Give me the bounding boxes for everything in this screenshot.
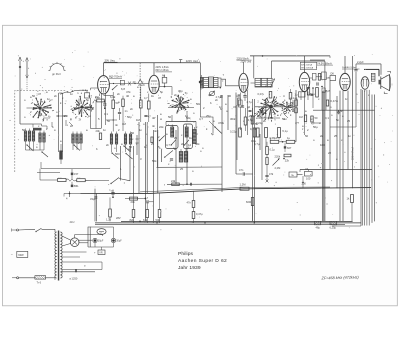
svg-text:1µ: 1µ <box>287 136 290 140</box>
svg-text:1n: 1n <box>345 97 349 101</box>
svg-text:Ab: Ab <box>162 73 166 77</box>
svg-text:5p: 5p <box>160 90 164 94</box>
svg-text:200: 200 <box>302 181 307 185</box>
svg-text:50: 50 <box>107 119 111 123</box>
svg-text:50: 50 <box>32 94 36 98</box>
svg-text:2n: 2n <box>117 92 121 96</box>
svg-text:5p: 5p <box>211 132 215 136</box>
svg-text:47k: 47k <box>126 90 131 94</box>
svg-text:~: ~ <box>11 252 13 256</box>
svg-text:0,27µ: 0,27µ <box>258 92 265 96</box>
svg-text:20k: 20k <box>131 200 136 204</box>
svg-text:2n: 2n <box>215 98 219 102</box>
svg-text:2,2µF: 2,2µF <box>357 60 364 64</box>
svg-text:4,7: 4,7 <box>295 121 299 125</box>
svg-text:40: 40 <box>152 116 156 120</box>
svg-text:48µ: 48µ <box>316 226 321 230</box>
svg-text:50: 50 <box>129 145 133 149</box>
svg-text:2n: 2n <box>292 109 296 113</box>
svg-text:6,25µ: 6,25µ <box>330 226 337 230</box>
svg-text:30p: 30p <box>178 89 183 93</box>
svg-text:47: 47 <box>38 92 42 96</box>
svg-text:4,7: 4,7 <box>199 117 203 121</box>
svg-text:Philips: Philips <box>178 251 194 257</box>
svg-text:0,68µF: 0,68µF <box>270 136 279 140</box>
svg-text:157: 157 <box>74 172 79 176</box>
svg-text:2n: 2n <box>174 93 178 97</box>
svg-text:6,8k: 6,8k <box>110 95 116 99</box>
svg-text:0,47µ: 0,47µ <box>196 212 203 216</box>
svg-text:VR: VR <box>99 252 103 255</box>
svg-text:30µF: 30µF <box>98 240 104 243</box>
svg-text:4n: 4n <box>154 129 158 133</box>
svg-text:47n: 47n <box>187 201 192 205</box>
svg-text:25: 25 <box>249 114 253 118</box>
svg-text:2n: 2n <box>263 119 267 123</box>
svg-text:24k: 24k <box>171 179 176 183</box>
svg-text:2n: 2n <box>181 142 185 146</box>
svg-text:1M: 1M <box>299 115 303 119</box>
svg-text:1n: 1n <box>103 128 107 132</box>
svg-text:22k: 22k <box>159 125 164 129</box>
svg-text:220V Ued: 220V Ued <box>186 59 198 63</box>
svg-text:500: 500 <box>115 152 120 156</box>
svg-text:50p: 50p <box>127 115 132 119</box>
svg-text:33µF: 33µF <box>90 197 96 201</box>
svg-text:95V 2,85mA: 95V 2,85mA <box>301 67 314 70</box>
svg-text:1n: 1n <box>310 117 314 121</box>
svg-text:50: 50 <box>168 115 172 119</box>
svg-text:25: 25 <box>347 119 351 123</box>
svg-text:gn Perl: gn Perl <box>52 72 61 76</box>
svg-text:100: 100 <box>320 143 325 147</box>
svg-text:0,1µ: 0,1µ <box>270 148 276 152</box>
svg-text:4n: 4n <box>152 124 156 128</box>
svg-text:g2: g2 <box>247 105 251 109</box>
svg-text:4n: 4n <box>233 117 237 121</box>
svg-text:47: 47 <box>208 93 212 97</box>
svg-text:28V: 28V <box>116 216 121 220</box>
svg-text:2,2M: 2,2M <box>275 166 281 170</box>
svg-text:25: 25 <box>334 134 338 138</box>
svg-text:47: 47 <box>158 96 162 100</box>
svg-text:50: 50 <box>22 128 26 132</box>
svg-text:1n: 1n <box>47 97 51 101</box>
svg-text:2n: 2n <box>320 134 324 138</box>
svg-text:220V Ued: 220V Ued <box>241 61 252 64</box>
svg-text:50k: 50k <box>195 142 200 146</box>
svg-text:30µF: 30µF <box>116 240 122 243</box>
svg-text:U: U <box>100 232 102 235</box>
svg-text:0,1µ: 0,1µ <box>250 127 256 131</box>
svg-text:4,7: 4,7 <box>166 143 170 147</box>
svg-text:1M: 1M <box>122 122 127 126</box>
svg-text:Tr 6: Tr 6 <box>37 281 42 285</box>
svg-text:4,7: 4,7 <box>88 94 92 98</box>
svg-text:50: 50 <box>131 131 135 135</box>
svg-text:6,8: 6,8 <box>326 89 330 93</box>
svg-text:2n: 2n <box>106 143 110 147</box>
svg-text:1n: 1n <box>70 92 74 96</box>
svg-text:40: 40 <box>126 94 130 98</box>
svg-text:B61: B61 <box>74 184 79 188</box>
svg-text:50: 50 <box>305 134 309 138</box>
svg-text:22k: 22k <box>285 159 290 163</box>
svg-text:5n: 5n <box>340 109 344 113</box>
svg-text:60W: 60W <box>18 253 24 257</box>
svg-text:50µ: 50µ <box>313 125 318 129</box>
svg-text:50k: 50k <box>152 159 157 163</box>
svg-text:25p: 25p <box>206 114 211 118</box>
svg-text:1n: 1n <box>185 114 189 118</box>
svg-text:DK: DK <box>331 71 335 75</box>
svg-text:820k: 820k <box>246 200 252 204</box>
svg-text:2n: 2n <box>130 107 134 111</box>
svg-text:25: 25 <box>151 142 155 146</box>
svg-text:1n: 1n <box>348 134 352 138</box>
svg-text:6,8: 6,8 <box>121 87 125 91</box>
svg-text:0,47m: 0,47m <box>331 99 339 103</box>
svg-text:47n: 47n <box>239 168 244 172</box>
svg-text:5p: 5p <box>86 98 90 102</box>
svg-text:1n: 1n <box>88 114 92 118</box>
svg-text:50µ: 50µ <box>310 92 315 96</box>
svg-text:74,5V 68mA: 74,5V 68mA <box>317 61 332 65</box>
svg-text:220V 67mA: 220V 67mA <box>352 147 355 160</box>
svg-text:470k: 470k <box>218 121 225 125</box>
svg-text:4Ω 1: 4Ω 1 <box>70 221 76 224</box>
svg-text:100: 100 <box>306 177 311 181</box>
svg-text:4,7: 4,7 <box>144 96 148 100</box>
svg-text:5n: 5n <box>336 118 340 122</box>
svg-text:667: 667 <box>287 146 292 150</box>
svg-text:60V 2,8mA: 60V 2,8mA <box>301 63 312 66</box>
svg-text:47: 47 <box>233 105 237 109</box>
svg-text:20k: 20k <box>96 129 101 133</box>
svg-text:30: 30 <box>228 94 232 98</box>
svg-text:1M: 1M <box>136 118 141 122</box>
svg-text:4n: 4n <box>115 123 119 127</box>
svg-text:220k: 220k <box>275 155 281 159</box>
svg-text:47k: 47k <box>269 172 274 176</box>
svg-text:0,1: 0,1 <box>104 112 108 116</box>
svg-text:800 700mV: 800 700mV <box>109 75 123 79</box>
svg-text:Jahr 1939: Jahr 1939 <box>178 265 201 271</box>
svg-text:1,2M: 1,2M <box>240 183 247 187</box>
svg-text:50k: 50k <box>196 102 201 106</box>
svg-text:25: 25 <box>180 167 184 171</box>
svg-text:0,1: 0,1 <box>325 116 329 120</box>
svg-text:30V Ueq: 30V Ueq <box>105 58 116 62</box>
svg-text:50: 50 <box>270 116 274 120</box>
svg-text:1δ7: 1δ7 <box>111 191 114 193</box>
svg-text:1n: 1n <box>284 117 288 121</box>
svg-text:2n: 2n <box>54 94 58 98</box>
svg-text:25: 25 <box>174 136 178 140</box>
svg-text:1,2k: 1,2k <box>106 218 112 222</box>
svg-text:0,1µ: 0,1µ <box>283 129 289 133</box>
svg-text:2n: 2n <box>70 124 74 128</box>
svg-text:4,7µ: 4,7µ <box>254 142 260 146</box>
svg-text:22: 22 <box>328 151 332 155</box>
svg-text:a 1250: a 1250 <box>69 276 77 280</box>
svg-text:25: 25 <box>64 114 68 118</box>
svg-text:1n: 1n <box>144 145 148 149</box>
svg-text:Aachen Super D 62: Aachen Super D 62 <box>178 258 227 264</box>
svg-text:1n: 1n <box>139 128 143 132</box>
